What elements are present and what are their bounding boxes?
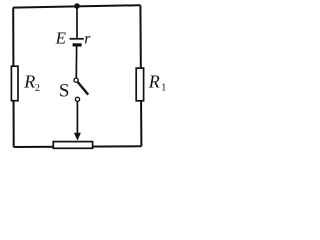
wire switch to wiper arrow [76, 102, 78, 135]
wire battery to switch [75, 47, 77, 79]
svg-text:R: R [148, 72, 160, 92]
wire top [13, 5, 140, 7]
svg-text:r: r [84, 31, 91, 48]
battery E r : long positive plate [70, 38, 84, 40]
switch S blade [78, 82, 89, 95]
svg-text:S: S [59, 80, 70, 101]
rheostat box [53, 142, 92, 149]
svg-text:2: 2 [35, 83, 40, 94]
wire left [12, 8, 15, 148]
battery E r : short thick negative plate [73, 43, 82, 46]
node junction dot [74, 3, 80, 9]
resistor R2 box [11, 66, 18, 101]
wire battery top lead [76, 6, 78, 39]
switch S top terminal [74, 78, 78, 82]
wire bottom [14, 145, 142, 148]
svg-text:E: E [55, 28, 67, 47]
switch S bottom terminal [75, 97, 79, 101]
wire right [140, 5, 141, 146]
resistor R1 box [136, 68, 143, 101]
svg-text:R: R [23, 72, 35, 92]
wiper arrowhead [74, 133, 81, 141]
svg-text:1: 1 [161, 83, 166, 94]
